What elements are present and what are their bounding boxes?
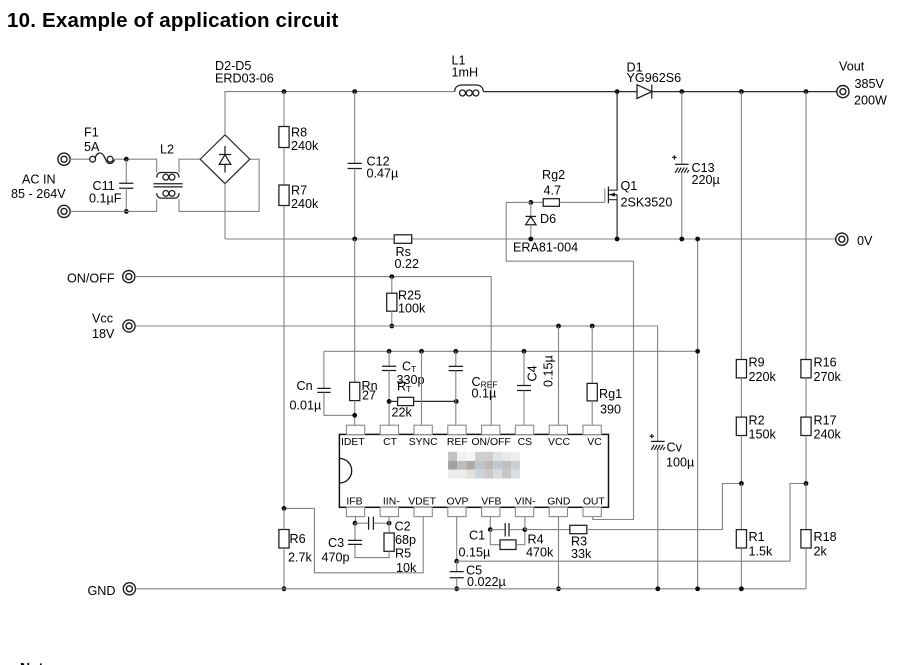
- pin stub VCC: [549, 425, 567, 434]
- resistor RT: [389, 397, 456, 405]
- label Vout 385V 200W: [839, 60, 887, 108]
- node R16 column top: [804, 89, 809, 94]
- svg-text:0.1µ: 0.1µ: [472, 386, 497, 400]
- node R9/R2 tap: [739, 481, 744, 486]
- svg-text:VCC: VCC: [548, 437, 570, 448]
- svg-text:22k: 22k: [392, 405, 413, 419]
- label Vcc 18V: [92, 312, 115, 342]
- fuse F1: [90, 153, 115, 163]
- node R16/R17 tap: [804, 481, 809, 486]
- node R6 bottom on GND rail: [282, 586, 287, 591]
- svg-text:0.15µ: 0.15µ: [542, 355, 556, 387]
- label Q1 2SK3520: [621, 179, 673, 210]
- svg-text:CT: CT: [383, 437, 398, 448]
- node C5 bottom on GND rail: [454, 586, 459, 591]
- svg-text:470k: 470k: [526, 545, 554, 559]
- wire 0V rail: [225, 238, 836, 240]
- diode D6: [526, 202, 536, 239]
- resistor R1: [736, 484, 746, 589]
- label C3 470p: [322, 536, 350, 565]
- label C11 0.1uF: [89, 179, 122, 205]
- label Rg1 390: [599, 387, 622, 416]
- label Cv 100u: [666, 440, 694, 469]
- label Rg2 4.7: [542, 168, 565, 198]
- svg-text:SYNC: SYNC: [409, 437, 438, 448]
- node IDET: [352, 413, 357, 418]
- terminal 0V: [836, 233, 848, 245]
- node VIN-: [523, 527, 528, 532]
- wire gate drive from OUT pin: [506, 202, 633, 519]
- svg-text:REF: REF: [447, 437, 468, 448]
- node VCC pin on Vcc line: [556, 324, 561, 329]
- label R9 220k: [749, 355, 777, 383]
- resistor R18: [801, 484, 811, 589]
- node IFB: [353, 521, 358, 526]
- wire OVP pin down: [456, 517, 458, 562]
- node CREF top on bus: [453, 349, 458, 354]
- svg-text:R17: R17: [814, 413, 837, 427]
- svg-text:100µ: 100µ: [666, 456, 694, 470]
- terminal AC IN bottom: [58, 205, 70, 217]
- resistor R17: [801, 378, 811, 484]
- node R9 column top: [739, 89, 744, 94]
- svg-text:Rg1: Rg1: [599, 387, 622, 401]
- label R2 150k: [749, 413, 777, 441]
- svg-text:L2: L2: [160, 142, 174, 156]
- svg-text:Note: Note: [20, 660, 51, 665]
- pin stub SYNC: [414, 425, 432, 434]
- label R6 2.7k: [288, 532, 313, 564]
- wire 0V to bus to GND rail: [697, 239, 699, 589]
- svg-text:VDET: VDET: [408, 496, 436, 507]
- svg-text:VC: VC: [587, 437, 602, 448]
- resistor Rn: [350, 239, 360, 425]
- resistor R7: [279, 148, 289, 206]
- pin stub OVP: [448, 507, 466, 516]
- svg-text:0.15µ: 0.15µ: [459, 545, 491, 559]
- svg-text:2SK3520: 2SK3520: [621, 195, 673, 209]
- svg-text:Vcc: Vcc: [92, 312, 113, 326]
- label CREF 0.1u: [472, 375, 498, 400]
- wire VDET pin to divider node: [284, 508, 423, 572]
- svg-text:ERD03-06: ERD03-06: [215, 72, 274, 86]
- wire L2 to bridge left vertex: [179, 159, 200, 172]
- svg-text:0.01µ: 0.01µ: [290, 398, 322, 412]
- node C13 bottom: [679, 237, 684, 242]
- node OVP: [454, 559, 459, 564]
- wire D1 to Vout: [652, 91, 837, 93]
- label D2-D5 ERD03-06: [215, 59, 274, 86]
- svg-text:68p: 68p: [395, 533, 416, 547]
- node bus end: [695, 237, 700, 242]
- svg-text:R8: R8: [291, 125, 307, 139]
- bridge rectifier D2-D5: [200, 135, 250, 184]
- svg-text:OVP: OVP: [447, 496, 469, 507]
- label R4 470k: [526, 532, 554, 559]
- node Rg1 top on Vcc line: [590, 324, 595, 329]
- svg-text:0.47µ: 0.47µ: [367, 167, 399, 181]
- capacitor C11: [119, 159, 133, 211]
- svg-text:AC IN: AC IN: [22, 172, 56, 186]
- svg-text:240k: 240k: [291, 139, 319, 153]
- label AC IN: [11, 172, 66, 201]
- svg-text:0.22: 0.22: [395, 257, 420, 271]
- node C11 bottom: [124, 209, 129, 214]
- svg-text:18V: 18V: [92, 327, 115, 341]
- wire R7 bottom down to VDET node: [283, 206, 285, 509]
- pin stub VFB: [482, 507, 500, 516]
- svg-text:2.7k: 2.7k: [288, 551, 313, 565]
- svg-text:IDET: IDET: [341, 437, 365, 448]
- capacitor C1: [490, 523, 525, 536]
- node IIN-: [387, 521, 392, 526]
- label D1 YG962S6: [627, 61, 682, 85]
- node VDET divider: [282, 506, 287, 511]
- node C12 top: [352, 89, 357, 94]
- pin stub GND: [549, 507, 567, 516]
- capacitor CT: [382, 351, 396, 425]
- svg-text:YG962S6: YG962S6: [627, 71, 682, 85]
- svg-text:4.7: 4.7: [544, 183, 562, 197]
- svg-text:240k: 240k: [291, 197, 319, 211]
- svg-text:D6: D6: [540, 212, 556, 226]
- transistor Q1 MOSFET: [605, 92, 617, 239]
- resistor R25: [387, 277, 397, 326]
- label C12 0.47u: [367, 154, 399, 180]
- svg-text:CS: CS: [518, 437, 533, 448]
- label CT 330p: [397, 359, 425, 386]
- svg-text:C4: C4: [526, 365, 540, 381]
- node VFB: [488, 527, 493, 532]
- pin labels top row: [341, 437, 602, 448]
- wire L2 bottom to bridge right vertex: [179, 159, 259, 211]
- resistor R4: [490, 530, 525, 550]
- svg-text:C2: C2: [395, 519, 411, 533]
- svg-text:IIN-: IIN-: [383, 496, 400, 507]
- resistor R3: [525, 484, 742, 534]
- svg-text:ON/OFF: ON/OFF: [471, 437, 510, 448]
- pin stub IFB: [346, 507, 364, 516]
- wire IFB pin down: [355, 517, 357, 524]
- svg-text:270k: 270k: [814, 370, 842, 384]
- label R17 240k: [814, 413, 842, 441]
- svg-text:Cn: Cn: [297, 379, 313, 393]
- label R7 240k: [291, 184, 319, 212]
- svg-text:1mH: 1mH: [452, 66, 479, 80]
- svg-text:VIN-: VIN-: [515, 496, 536, 507]
- capacitor Cn: [317, 351, 354, 415]
- label F1 5A: [84, 126, 100, 154]
- node Cv bottom on GND rail: [655, 586, 660, 591]
- svg-text:Q1: Q1: [621, 179, 638, 193]
- label R18 2k: [814, 530, 837, 558]
- IC blurred part number mosaic: [448, 452, 520, 479]
- resistor R8: [279, 92, 289, 148]
- svg-text:R9: R9: [749, 355, 765, 369]
- svg-text:10. Example of application cir: 10. Example of application circuit: [7, 9, 338, 32]
- svg-text:R16: R16: [814, 355, 837, 369]
- inductor L2 common-mode choke: [154, 173, 183, 199]
- wire VFB pin down: [489, 517, 491, 530]
- wire ON/OFF line to pin: [135, 277, 491, 425]
- resistor Rs: [394, 235, 412, 244]
- pin stub OUT: [583, 507, 601, 516]
- svg-text:ON/OFF: ON/OFF: [67, 271, 115, 285]
- resistor R16: [801, 92, 811, 378]
- node RT right: [454, 399, 459, 404]
- svg-text:200W: 200W: [854, 93, 887, 107]
- label C1 0.15u: [459, 528, 491, 559]
- svg-text:R6: R6: [290, 532, 306, 546]
- pin stub VC: [583, 425, 601, 434]
- label C4 0.15u (rotated): [526, 355, 556, 387]
- capacitor CREF: [449, 351, 463, 425]
- svg-text:Cv: Cv: [667, 440, 683, 454]
- node R25 bottom on Vcc line: [389, 324, 394, 329]
- wire VIN- pin down: [524, 517, 526, 530]
- capacitor C13 electrolytic: [672, 92, 689, 239]
- node C11 top: [124, 157, 129, 162]
- svg-text:150k: 150k: [749, 428, 777, 442]
- wire AC top to fuse: [70, 158, 90, 160]
- wire L1 to D1: [483, 91, 637, 93]
- svg-text:Vout: Vout: [839, 60, 865, 74]
- capacitor C4: [517, 351, 531, 425]
- svg-text:100k: 100k: [398, 301, 426, 315]
- svg-text:R5: R5: [395, 546, 411, 560]
- svg-text:GND: GND: [547, 496, 570, 507]
- svg-text:0.1µF: 0.1µF: [89, 191, 122, 205]
- wire GND pin to rail: [558, 517, 560, 589]
- node C12 bottom on 0V rail: [352, 237, 357, 242]
- pin stub VDET: [414, 507, 432, 516]
- node Q1 drain on rail: [615, 89, 620, 94]
- node R25 top: [389, 274, 394, 279]
- wire SYNC to bus: [421, 351, 423, 425]
- capacitor C2: [355, 517, 389, 530]
- svg-text:0.022µ: 0.022µ: [467, 575, 506, 589]
- label R1 1.5k: [749, 530, 774, 558]
- svg-text:220µ: 220µ: [692, 173, 720, 187]
- node R1 bottom on GND rail: [739, 586, 744, 591]
- resistor R9: [736, 92, 746, 378]
- node C13 top: [679, 89, 684, 94]
- label RT 22k: [392, 380, 413, 420]
- wire fuse to C11 node to L2: [113, 159, 157, 172]
- svg-text:27: 27: [362, 389, 376, 403]
- svg-text:R1: R1: [749, 530, 765, 544]
- diode D1: [637, 85, 652, 99]
- terminal AC IN top: [58, 153, 70, 165]
- node CT top on bus: [387, 349, 392, 354]
- node 0V column on GND rail: [695, 586, 700, 591]
- label Rs 0.22: [395, 245, 420, 271]
- svg-text:R4: R4: [528, 532, 544, 546]
- capacitor C3: [348, 523, 362, 544]
- svg-text:85 - 264V: 85 - 264V: [11, 187, 66, 201]
- wire GND rail: [136, 588, 806, 590]
- pin labels bottom row: [346, 496, 605, 507]
- svg-text:R18: R18: [814, 530, 837, 544]
- node C4 top on bus: [522, 349, 527, 354]
- wire AC bottom to L2: [70, 199, 156, 211]
- svg-text:5A: 5A: [84, 140, 100, 154]
- node R8 top: [282, 89, 287, 94]
- svg-text:OUT: OUT: [583, 496, 606, 507]
- wire ground bus above IC: [324, 350, 698, 352]
- op-amp/controller IC U1 body: [339, 434, 608, 507]
- label C5 0.022u: [466, 563, 506, 589]
- wire bridge top to +rail: [225, 92, 455, 135]
- svg-text:R7: R7: [291, 184, 307, 198]
- node RT left: [387, 399, 392, 404]
- pin stub VIN-: [515, 507, 533, 516]
- svg-text:33k: 33k: [571, 547, 592, 561]
- node SYNC on bus: [419, 349, 424, 354]
- svg-text:CT: CT: [402, 359, 416, 374]
- label R5 10k: [395, 546, 417, 575]
- svg-text:VFB: VFB: [481, 496, 501, 507]
- pin stub IIN-: [380, 507, 398, 516]
- pin stub ON/OFF: [482, 425, 500, 434]
- node Q1 source on 0V rail: [615, 237, 620, 242]
- resistor Rg2: [531, 199, 605, 207]
- label Rn 27: [362, 379, 378, 403]
- resistor R6: [279, 508, 289, 588]
- label R3 33k: [571, 535, 592, 562]
- terminal Vout: [837, 86, 849, 98]
- inductor L1: [455, 85, 484, 96]
- terminal GND: [123, 583, 135, 595]
- svg-text:390: 390: [600, 403, 621, 417]
- wire Vcc line: [135, 326, 657, 441]
- wire VCC pin: [558, 326, 560, 425]
- label R8 240k: [291, 125, 319, 153]
- svg-text:GND: GND: [88, 584, 116, 598]
- capacitor Cv electrolytic: [650, 434, 665, 589]
- resistor Rg1: [587, 326, 597, 425]
- svg-text:470p: 470p: [322, 551, 350, 565]
- node Rg2/D6: [528, 200, 533, 205]
- label R25 100k: [398, 289, 426, 316]
- terminal Vcc: [123, 320, 135, 332]
- label Cn 0.01u: [290, 379, 322, 412]
- wire OVP to R16/R17 tap: [457, 484, 806, 562]
- svg-text:R2: R2: [749, 413, 765, 427]
- label L1 1mH: [452, 53, 479, 79]
- label R16 270k: [814, 355, 842, 383]
- node GND pin on rail: [556, 586, 561, 591]
- pin stub REF: [448, 425, 466, 434]
- svg-text:385V: 385V: [855, 77, 885, 91]
- resistor R5: [355, 533, 394, 558]
- capacitor C5: [450, 561, 464, 589]
- svg-text:F1: F1: [84, 126, 99, 140]
- svg-text:IFB: IFB: [346, 496, 362, 507]
- pin stub CT: [380, 425, 398, 434]
- svg-text:240k: 240k: [814, 428, 842, 442]
- node D6 anode on 0V rail: [528, 237, 533, 242]
- wire bridge bottom to 0V rail: [224, 184, 226, 239]
- wire IIN- pin down: [388, 517, 390, 533]
- svg-text:2k: 2k: [814, 544, 828, 558]
- svg-text:220k: 220k: [749, 370, 777, 384]
- svg-text:C3: C3: [328, 536, 344, 550]
- svg-text:C1: C1: [469, 528, 485, 542]
- pin stub CS: [515, 425, 533, 434]
- svg-text:0V: 0V: [857, 234, 873, 248]
- resistor R2: [736, 378, 746, 484]
- pin stub IDET: [346, 425, 364, 434]
- capacitor C12: [348, 92, 362, 239]
- svg-text:1.5k: 1.5k: [749, 544, 774, 558]
- label C13 220u: [692, 161, 720, 187]
- svg-text:ERA81-004: ERA81-004: [513, 241, 578, 255]
- terminal ON/OFF: [123, 271, 135, 283]
- label C2 68p: [395, 519, 417, 547]
- svg-text:Rg2: Rg2: [542, 168, 565, 182]
